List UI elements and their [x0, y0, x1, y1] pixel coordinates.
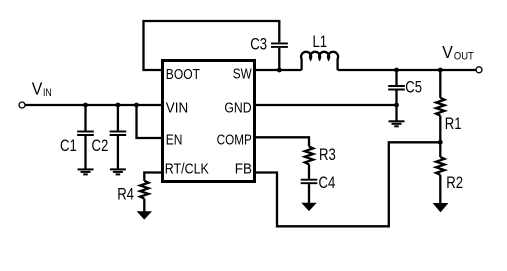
- capacitor C1: [77, 105, 94, 169]
- svg-text:C4: C4: [319, 174, 336, 192]
- svg-text:C3: C3: [250, 35, 267, 53]
- ground (C2, earth bars): [110, 169, 126, 174]
- wire GND pin to C5 node: [255, 104, 397, 106]
- resistor R4: [140, 181, 148, 199]
- wire SW to L1: [255, 69, 302, 71]
- ground (R4, arrow): [137, 211, 152, 219]
- wire R4 to ground: [143, 199, 145, 212]
- capacitor C2: [110, 105, 127, 169]
- svg-text:IN: IN: [43, 87, 52, 99]
- wire FB feedback path: [255, 142, 441, 226]
- ground (R2, arrow): [433, 203, 449, 212]
- capacitor C5: [388, 70, 405, 121]
- svg-text:C5: C5: [405, 79, 422, 97]
- resistor R1: [436, 70, 444, 142]
- node SW junction: [277, 68, 282, 73]
- terminal VOUT: [476, 67, 482, 73]
- svg-text:RT/CLK: RT/CLK: [165, 161, 209, 177]
- capacitor C3: [271, 43, 288, 47]
- resistor R3: [305, 147, 313, 165]
- node GND/C5 junction: [394, 103, 399, 108]
- svg-text:R2: R2: [446, 174, 463, 192]
- node R1 top junction: [438, 68, 443, 73]
- svg-text:OUT: OUT: [454, 51, 474, 63]
- ground (C1, earth bars): [78, 169, 94, 174]
- svg-text:BOOT: BOOT: [166, 67, 200, 83]
- svg-text:V: V: [442, 42, 453, 62]
- ground (C5/GND, earth bars): [389, 121, 405, 126]
- svg-text:C2: C2: [92, 137, 109, 155]
- svg-text:V: V: [32, 79, 43, 99]
- wire R3 to C4: [308, 164, 310, 179]
- node C1 junction: [83, 103, 88, 108]
- terminal VIN: [19, 102, 25, 108]
- wire BOOT loop (left vertical + top horizontal + right vertical): [144, 21, 280, 70]
- svg-text:COMP: COMP: [217, 132, 252, 148]
- svg-text:FB: FB: [235, 161, 252, 177]
- svg-text:R3: R3: [319, 146, 336, 164]
- resistor R2: [436, 142, 444, 204]
- wire EN branch: [137, 105, 163, 138]
- op-amp U1 (regulator IC body): [163, 61, 255, 182]
- svg-text:R4: R4: [117, 185, 134, 203]
- inductor L1: [301, 52, 338, 70]
- wire C3 to SW junction: [278, 48, 280, 70]
- node C2 junction: [116, 103, 121, 108]
- capacitor C4: [301, 180, 318, 184]
- wire COMP to R3: [255, 137, 310, 146]
- wire C4 to ground: [308, 184, 310, 203]
- svg-text:R1: R1: [445, 115, 462, 133]
- node FB divider junction: [438, 140, 443, 145]
- svg-text:EN: EN: [166, 132, 183, 148]
- svg-text:C1: C1: [60, 137, 77, 155]
- svg-text:SW: SW: [233, 67, 252, 83]
- svg-text:VIN: VIN: [166, 100, 188, 116]
- wire RT/CLK to R4: [144, 173, 162, 181]
- svg-text:L1: L1: [313, 33, 328, 51]
- node C5 top junction: [394, 68, 399, 73]
- wire L1 to VOUT terminal: [338, 69, 476, 71]
- node EN junction: [134, 103, 139, 108]
- svg-text:GND: GND: [224, 100, 251, 116]
- wire VIN rail from input terminal to VIN pin: [25, 104, 163, 106]
- ground (C4, arrow): [301, 203, 316, 211]
